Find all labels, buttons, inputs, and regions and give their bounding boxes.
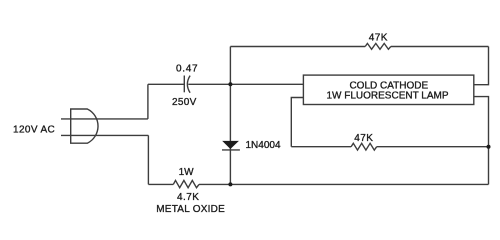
svg-text:METAL OXIDE: METAL OXIDE bbox=[156, 204, 225, 215]
svg-text:47K: 47K bbox=[369, 33, 388, 44]
svg-text:4.7K: 4.7K bbox=[177, 192, 199, 203]
svg-text:0.47: 0.47 bbox=[176, 63, 198, 74]
svg-text:1N4004: 1N4004 bbox=[246, 140, 281, 151]
svg-text:250V: 250V bbox=[172, 97, 197, 108]
svg-text:47K: 47K bbox=[354, 133, 373, 144]
svg-text:COLD CATHODE: COLD CATHODE bbox=[349, 80, 428, 91]
svg-text:1W FLUORESCENT LAMP: 1W FLUORESCENT LAMP bbox=[326, 91, 448, 102]
svg-text:120V AC: 120V AC bbox=[13, 124, 55, 135]
svg-text:1W: 1W bbox=[179, 167, 195, 178]
